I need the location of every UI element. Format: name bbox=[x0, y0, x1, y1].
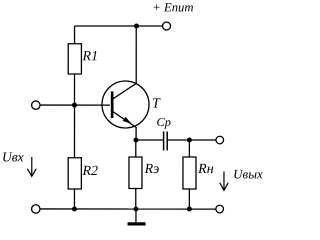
svg-text:Rн: Rн bbox=[197, 162, 214, 177]
svg-text:+ Eпит: + Eпит bbox=[152, 0, 193, 14]
svg-text:Cр: Cр bbox=[156, 115, 170, 129]
svg-text:Uвх: Uвх bbox=[2, 149, 24, 164]
svg-text:R1: R1 bbox=[82, 49, 99, 64]
svg-text:Rэ: Rэ bbox=[144, 162, 160, 177]
svg-text:Uвых: Uвых bbox=[233, 166, 263, 181]
svg-text:R2: R2 bbox=[81, 164, 98, 179]
svg-text:T: T bbox=[152, 97, 161, 112]
